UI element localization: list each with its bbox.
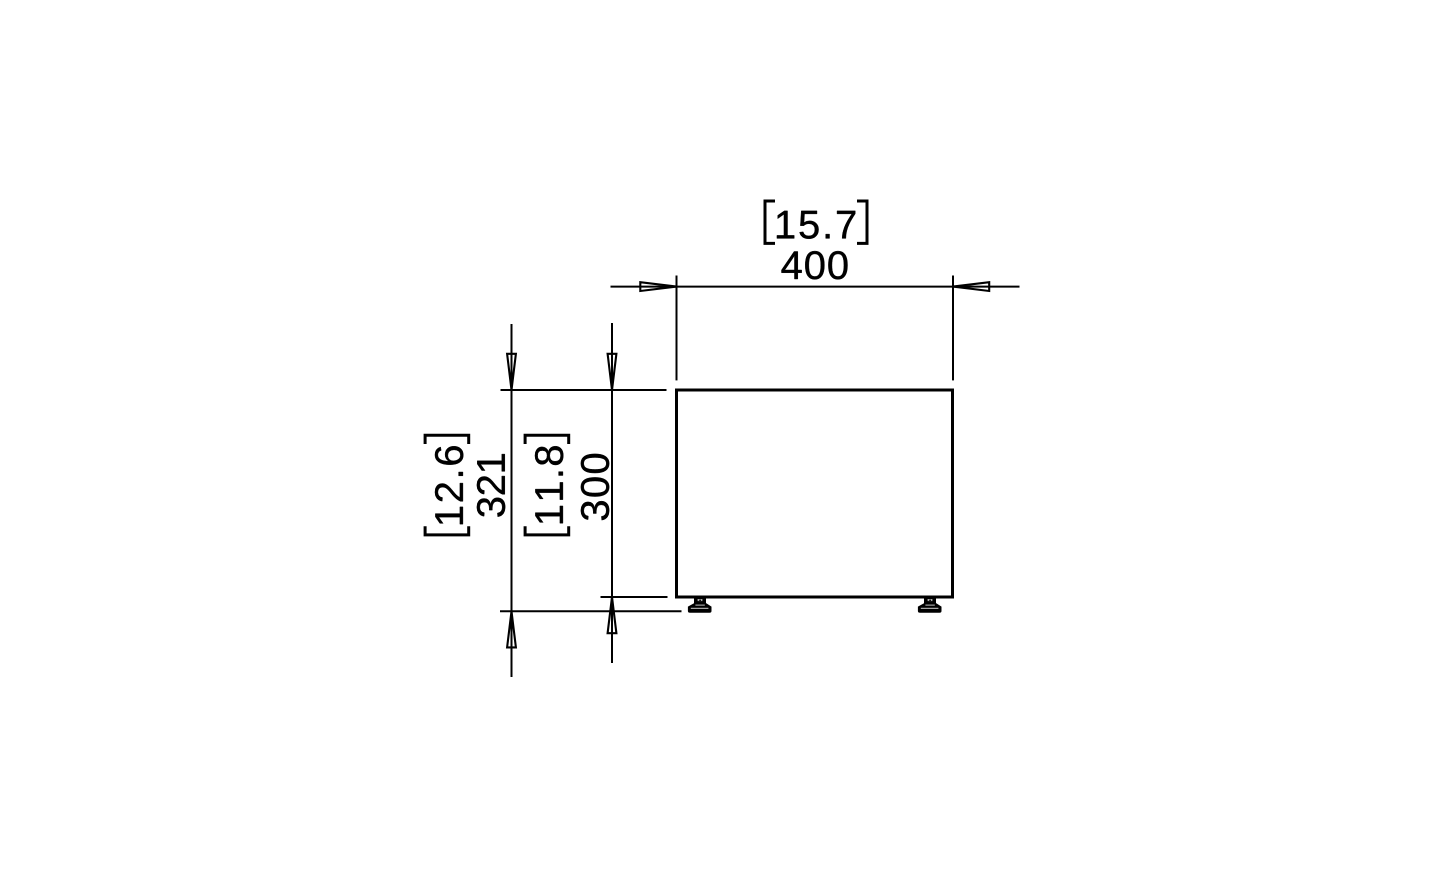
dimension 400: bracket [ of [15.7] (765, 201, 775, 243)
dimension 300: bottom extension line (box bottom level) (601, 596, 668, 598)
dimension 321: bracket ] (top) of [12.6] (425, 435, 469, 444)
right foot pad (918, 603, 942, 613)
dimension 400: label 15.7 (777, 211, 855, 239)
dimension 300: bracket ] (top) of [11.8] (525, 435, 569, 444)
left foot stem (694, 597, 706, 604)
dimension 400: bracket ] of [15.7] (857, 201, 867, 243)
dimension 321: top extension line (box top level) (501, 389, 667, 391)
dimension 400: right arrowhead (953, 282, 989, 291)
dimension 300: label 11.8 (rotated) (535, 446, 563, 523)
dimension 400: dimension line (611, 286, 1020, 288)
dimension 300: top arrowhead (608, 354, 617, 390)
left foot pad (688, 603, 712, 613)
dimension 400: left arrowhead (640, 282, 676, 291)
dimension 300: bracket [ (bottom) of [11.8] (525, 526, 569, 535)
box outline (bench side view) (677, 390, 953, 597)
dimension 321: label 12.6 (rotated) (435, 446, 463, 524)
dimension 321: label 321 (rotated) (477, 454, 505, 517)
dimension 400: left extension line (676, 276, 678, 381)
dimension 300: dimension line (611, 323, 613, 663)
dimension 400: label 400 (782, 251, 848, 279)
dimension 300: bottom arrowhead (608, 597, 617, 633)
dimension 300: label 300 (rotated) (581, 454, 609, 520)
dimension 321: top arrowhead (507, 354, 516, 390)
right foot stem (924, 597, 936, 604)
dimension 321: dimension line (511, 324, 513, 677)
dimension 321: bottom arrowhead (507, 611, 516, 647)
dimension 321: bottom extension line (floor level) (500, 610, 682, 612)
dimension 400: right extension line (952, 276, 954, 381)
dimension 321: bracket [ (bottom) of [12.6] (425, 526, 469, 535)
